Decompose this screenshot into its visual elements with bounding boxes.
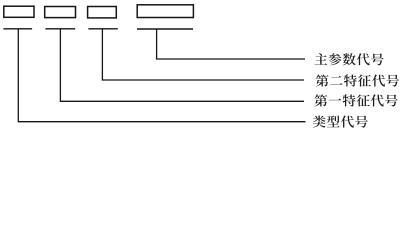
- label 主参数代号 (main parameter code): [315, 53, 384, 65]
- box 1 (type code box): [4, 6, 34, 17]
- underline 1: [3, 28, 32, 30]
- label 类型代号 (type code): [313, 116, 368, 128]
- lead wire 2 to 第一特征代号: [60, 29, 304, 102]
- lead wire 1 to 类型代号: [18, 29, 305, 122]
- box 3 (second characteristic code box): [88, 7, 117, 18]
- lead wire 4 to 主参数代号: [157, 29, 305, 59]
- underline 3: [88, 28, 117, 30]
- label 第二特征代号 (second characteristic code): [316, 75, 399, 87]
- lead wire 3 to 第二特征代号: [102, 29, 304, 80]
- box 4 (main parameter code box): [137, 5, 193, 18]
- underline 4: [137, 28, 193, 30]
- underline 2: [45, 28, 75, 30]
- label 第一特征代号 (first characteristic code): [314, 94, 397, 106]
- box 2 (first characteristic code box): [45, 7, 76, 18]
